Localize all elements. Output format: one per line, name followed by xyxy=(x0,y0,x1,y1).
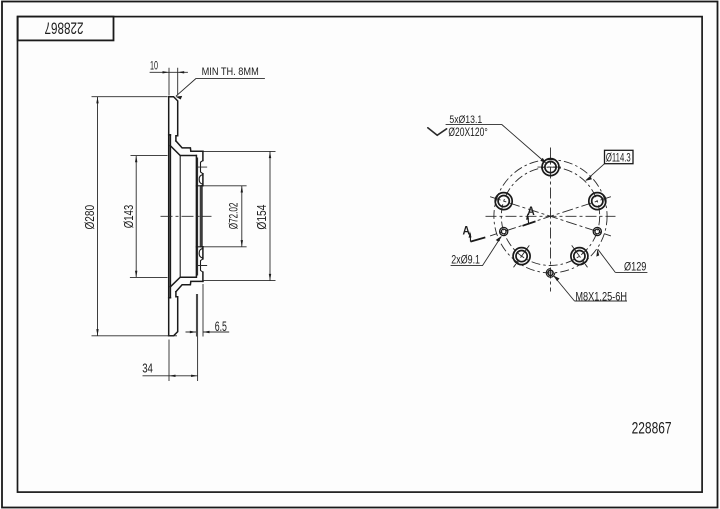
svg-text:34: 34 xyxy=(142,361,153,376)
svg-text:6.5: 6.5 xyxy=(215,319,227,334)
svg-text:228867: 228867 xyxy=(632,418,672,437)
svg-text:MIN TH. 8MM: MIN TH. 8MM xyxy=(202,66,259,78)
svg-text:228867: 228867 xyxy=(45,18,84,37)
svg-text:Ø143: Ø143 xyxy=(121,205,136,229)
svg-text:A: A xyxy=(462,225,470,237)
svg-text:A: A xyxy=(527,206,535,218)
svg-text:Ø20X120°: Ø20X120° xyxy=(448,125,488,139)
svg-text:10: 10 xyxy=(150,59,158,73)
svg-text:Ø114.3: Ø114.3 xyxy=(606,150,631,164)
svg-text:2xØ9.1: 2xØ9.1 xyxy=(451,253,480,267)
svg-text:M8X1.25-6H: M8X1.25-6H xyxy=(575,289,627,303)
svg-text:Ø280: Ø280 xyxy=(82,205,97,230)
svg-text:Ø129: Ø129 xyxy=(624,259,646,273)
svg-text:Ø72.02: Ø72.02 xyxy=(226,202,240,229)
svg-text:Ø154: Ø154 xyxy=(254,205,269,230)
svg-text:5xØ13.1: 5xØ13.1 xyxy=(449,114,482,126)
